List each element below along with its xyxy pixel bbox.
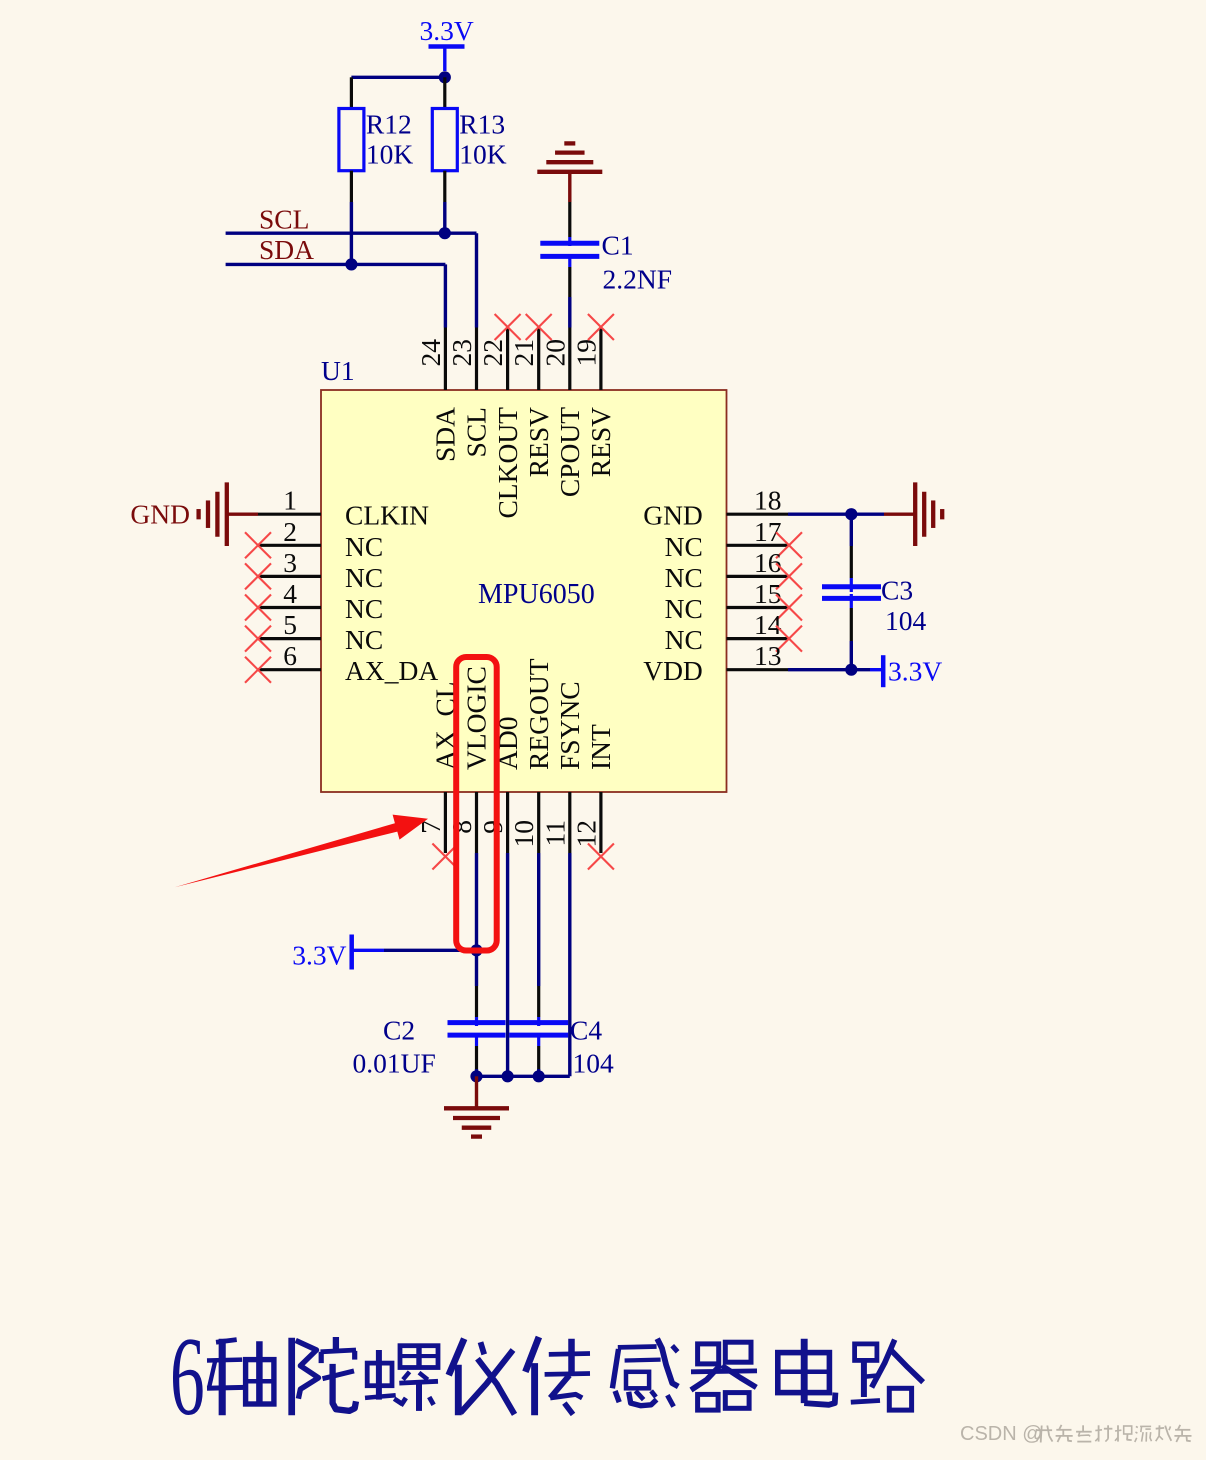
svg-text:GND: GND (643, 500, 703, 531)
svg-text:10K: 10K (459, 139, 507, 170)
svg-text:6: 6 (170, 1315, 205, 1439)
svg-text:3: 3 (283, 547, 297, 578)
svg-text:RESV: RESV (585, 407, 616, 477)
svg-text:NC: NC (665, 624, 703, 655)
svg-text:NC: NC (665, 531, 703, 562)
svg-text:CLKOUT: CLKOUT (492, 407, 523, 519)
svg-text:R13: R13 (459, 109, 505, 140)
svg-text:FSYNC: FSYNC (554, 681, 585, 770)
svg-text:104: 104 (885, 605, 927, 636)
svg-text:3.3V: 3.3V (888, 656, 942, 687)
svg-text:9: 9 (477, 820, 508, 834)
svg-text:VLOGIC: VLOGIC (461, 666, 492, 770)
svg-text:18: 18 (754, 485, 782, 516)
svg-text:4: 4 (283, 578, 297, 609)
svg-text:2.2NF: 2.2NF (603, 264, 673, 295)
svg-text:13: 13 (754, 640, 782, 671)
svg-text:INT: INT (585, 724, 616, 770)
svg-text:AX_DA: AX_DA (345, 655, 438, 686)
svg-text:NC: NC (345, 593, 383, 624)
svg-text:2: 2 (283, 516, 297, 547)
svg-text:NC: NC (345, 562, 383, 593)
svg-text:14: 14 (754, 609, 782, 640)
svg-text:17: 17 (754, 516, 782, 547)
svg-text:12: 12 (570, 820, 601, 848)
svg-text:U1: U1 (321, 355, 355, 386)
svg-text:NC: NC (345, 531, 383, 562)
svg-text:SDA: SDA (259, 234, 314, 265)
svg-text:CLKIN: CLKIN (345, 500, 429, 531)
svg-text:10: 10 (508, 820, 539, 848)
svg-text:NC: NC (665, 562, 703, 593)
svg-text:C2: C2 (383, 1015, 415, 1046)
svg-text:REGOUT: REGOUT (523, 658, 554, 770)
svg-text:8: 8 (446, 820, 477, 834)
svg-text:SDA: SDA (430, 407, 461, 462)
svg-text:24: 24 (415, 339, 446, 367)
svg-text:16: 16 (754, 547, 782, 578)
svg-text:CPOUT: CPOUT (554, 407, 585, 497)
svg-text:MPU6050: MPU6050 (478, 579, 595, 610)
svg-text:NC: NC (345, 624, 383, 655)
svg-text:23: 23 (446, 339, 477, 367)
svg-text:11: 11 (539, 820, 570, 846)
svg-text:19: 19 (570, 339, 601, 367)
svg-text:5: 5 (283, 609, 297, 640)
svg-text:CSDN @: CSDN @ (960, 1423, 1043, 1445)
svg-text:SCL: SCL (461, 407, 492, 457)
svg-text:10K: 10K (366, 139, 414, 170)
svg-text:20: 20 (539, 339, 570, 367)
svg-text:NC: NC (665, 593, 703, 624)
svg-text:3.3V: 3.3V (419, 15, 473, 46)
svg-text:3.3V: 3.3V (292, 940, 346, 971)
svg-text:C3: C3 (881, 575, 913, 606)
svg-text:C4: C4 (570, 1015, 602, 1046)
svg-text:VDD: VDD (643, 655, 703, 686)
svg-text:104: 104 (573, 1048, 615, 1079)
svg-text:22: 22 (477, 339, 508, 366)
svg-text:SCL: SCL (259, 204, 309, 235)
svg-text:GND: GND (130, 499, 190, 530)
svg-text:C1: C1 (602, 230, 634, 261)
svg-text:R12: R12 (366, 109, 412, 140)
svg-text:6: 6 (283, 640, 297, 671)
svg-text:15: 15 (754, 578, 782, 609)
svg-text:21: 21 (508, 339, 539, 367)
svg-text:0.01UF: 0.01UF (353, 1048, 436, 1079)
svg-text:1: 1 (283, 485, 297, 516)
svg-text:RESV: RESV (523, 407, 554, 477)
